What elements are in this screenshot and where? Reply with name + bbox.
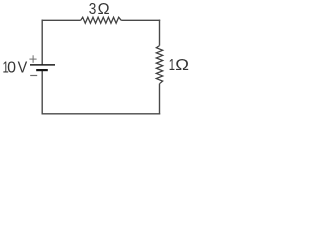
resistor 3 ohm (horizontal zigzag) bbox=[81, 17, 122, 23]
wire right upper (corner to resistor) bbox=[159, 20, 161, 46]
svg-text:3: 3 bbox=[89, 1, 97, 18]
label 3 ohm bbox=[89, 1, 110, 18]
battery 10 V : short negative plate bbox=[36, 69, 48, 71]
svg-text:V: V bbox=[18, 59, 28, 77]
battery 10 V : long positive plate bbox=[30, 64, 55, 66]
resistor 1 ohm (vertical zigzag) bbox=[156, 46, 162, 84]
battery - polarity mark bbox=[30, 75, 37, 77]
wire top-right segment bbox=[121, 19, 160, 21]
wire left lower (battery to bottom corner) bbox=[41, 70, 43, 115]
wire bottom segment bbox=[42, 113, 161, 115]
battery + polarity mark bbox=[29, 55, 36, 63]
svg-text:1: 1 bbox=[169, 55, 175, 74]
label 10 V bbox=[3, 57, 29, 76]
svg-text:0: 0 bbox=[7, 59, 16, 76]
label 1 ohm bbox=[169, 55, 189, 74]
svg-text:Ω: Ω bbox=[98, 1, 110, 18]
wire right lower (resistor to bottom corner) bbox=[159, 84, 161, 115]
wire left upper (corner to battery) bbox=[41, 20, 43, 65]
wire top-left segment bbox=[42, 19, 81, 21]
svg-text:Ω: Ω bbox=[175, 55, 189, 74]
